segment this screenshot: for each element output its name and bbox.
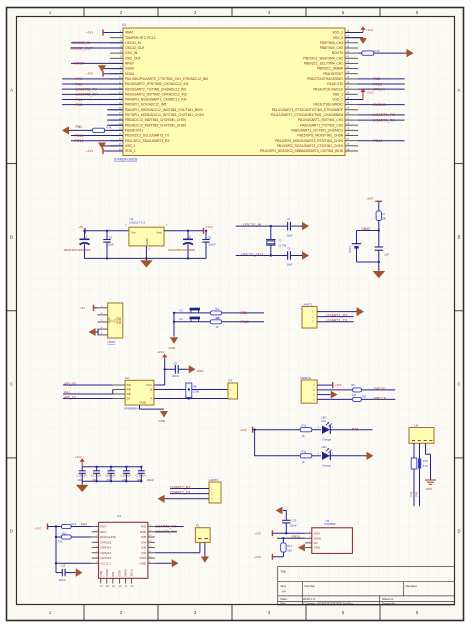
svg-text:VDDA: VDDA [125,72,135,76]
svg-text:Orange: Orange [322,463,331,467]
wire USART2_RX [170,486,209,490]
svg-text:C3: C3 [109,235,113,239]
svg-text:U2: U2 [125,376,129,380]
wire PA4 [62,98,123,102]
power +3V3 on VDDA [86,71,123,77]
svg-text:IO5: IO5 [141,535,146,539]
svg-text:USART3_RX: USART3_RX [156,525,177,529]
svg-text:VSS_2: VSS_2 [333,92,343,96]
wire USART1_RX [358,113,405,117]
resistor R6 10K on SWCLK [317,395,395,402]
svg-text:P3: P3 [229,379,233,383]
ground symbol battery [373,271,386,278]
svg-text:NC: NC [314,541,318,545]
U1 right pins with names and numbers [260,30,358,153]
svg-text:USART1_TX: USART1_TX [327,319,348,323]
capacitor C8 100nF with ground arrow [165,361,204,378]
svg-text:IO9: IO9 [111,571,115,576]
svg-text:PA4: PA4 [76,98,83,102]
svg-text:VBAT: VBAT [125,31,133,35]
svg-text:+3V3: +3V3 [86,149,93,153]
svg-text:JTCLK: JTCLK [373,87,385,91]
resistor R13 on EN [55,527,92,573]
svg-text:Date:: Date: [281,597,288,601]
wire U3 Vout to +3V3 [164,225,213,234]
svg-text:VCC: VCC [146,383,153,387]
svg-text:U1: U1 [122,23,126,27]
svg-text:100uF/25V/10%(0805): 100uF/25V/10%(0805) [168,248,195,252]
connector UART2 [209,478,222,503]
U6 bottom pin marks [412,440,432,442]
svg-text:DEBUG: DEBUG [301,376,312,380]
wire stub [107,124,123,126]
wire +3V3 to U2 VCC [154,359,166,385]
svg-text:PA0: PA0 [76,77,83,81]
svg-text:STM32F103C8: STM32F103C8 [114,158,137,162]
power +3V3 caps bus [75,455,85,467]
power +3V3 for LEDs [240,427,253,433]
svg-text:A: A [458,88,461,93]
power +3V3 on VDD_3 [345,26,373,32]
svg-text:Y2: Y2 [278,239,282,243]
svg-text:SWCLK: SWCLK [374,396,387,400]
U1 left pins with names and numbers [110,30,208,153]
svg-text:2019-7-2: 2019-7-2 [303,597,315,601]
svg-text:+3V3: +3V3 [254,555,261,559]
wire USART3_RX from U4 TXD [155,525,184,529]
op-amp U1 MCU STM32F103C8 body [123,28,345,156]
ground bus and symbol under U3 [85,246,207,268]
svg-text:C5: C5 [188,235,192,239]
svg-text:DS18B20: DS18B20 [325,522,337,526]
svg-text:SWDIO: SWDIO [374,387,386,391]
ground arrow U5 GND [298,544,305,552]
svg-text:GND: GND [169,346,175,350]
svg-text:DI: DI [127,397,130,401]
svg-text:VCC3.3: VCC3.3 [100,561,111,565]
svg-text:PA5/SPI1_SCK/ADC12_IN5: PA5/SPI1_SCK/ADC12_IN5 [125,103,166,107]
resistor R12 on RST [55,523,92,529]
power +5V input [78,225,85,234]
svg-text:C17/104: C17/104 [91,473,102,477]
svg-text:PA12/USART1_RTS/CANTX/TIM1_ETR: PA12/USART1_RTS/CANTX/TIM1_ETR/USBDP [272,108,344,112]
svg-text:RST: RST [100,525,106,529]
svg-text:SWDIO: SWDIO [373,103,386,107]
svg-text:PA5: PA5 [76,103,83,107]
crystal Y2 32.768 [266,226,287,255]
wire USART3_TX from U4 RXD [155,530,177,534]
svg-text:R12: R12 [72,523,77,526]
svg-text:PA11/USART1_CTS/CANRX/TIM1_CH4: PA11/USART1_CTS/CANRX/TIM1_CH4/USBDM [271,113,343,117]
svg-text:D: D [10,529,13,534]
svg-text:VDD_2: VDD_2 [332,98,343,102]
capacitor C4 20pF with ground arrow [287,247,309,267]
wire SWDIO [358,103,405,107]
ground for buttons [169,313,179,350]
svg-text:+3V3: +3V3 [240,428,247,432]
capacitor C15 100nF on U4 VCC [56,563,76,582]
bottom bus wire [82,480,141,482]
svg-text:PA1/USART2_RTS/TIM2_CH2/ADC12_: PA1/USART2_RTS/TIM2_CH2/ADC12_IN1 [125,82,189,86]
svg-text:GND: GND [118,316,122,324]
svg-text:485_TX: 485_TX [64,396,77,400]
sensor U5 DS18B20 body [312,528,353,554]
svg-text:B: B [150,388,152,392]
svg-text:MISO: MISO [105,568,109,576]
svg-text:VSS_1: VSS_1 [125,144,135,148]
module U4 ESP8266 body [99,522,148,578]
svg-text:VSSA: VSSA [125,67,135,71]
svg-text:OSC32_IN: OSC32_IN [72,41,91,45]
svg-text:PB11: PB11 [75,139,84,143]
svg-text:OSC_OUT: OSC_OUT [125,56,141,60]
svg-text:PB14/SPI2_MISO/USART3_RTS/TIM1: PB14/SPI2_MISO/USART3_RTS/TIM1_CH2N [275,139,343,143]
svg-text:C13: C13 [292,519,297,523]
ground arrow UART2 [158,495,210,503]
svg-text:PB10: PB10 [292,535,300,539]
svg-text:100nF: 100nF [107,242,115,246]
svg-text:20pF: 20pF [287,263,293,267]
wire +5V to U3 Vin [85,230,129,232]
svg-text:K1: K1 [180,308,184,312]
wire PB11 [71,139,123,143]
capacitor C3 100nF [103,230,114,259]
svg-text:PB8/TIM4_CH3: PB8/TIM4_CH3 [320,46,343,50]
svg-text:GND: GND [314,546,320,550]
svg-text:UART2: UART2 [209,478,219,482]
wire USART2_TX [62,87,123,91]
capacitor C20 100nF [136,466,147,483]
svg-text:VSS_3: VSS_3 [333,36,343,40]
svg-text:Orange: Orange [322,437,331,441]
wire PA15 [358,82,405,86]
wire PA1 [62,82,123,86]
svg-text:GPIO14: GPIO14 [100,546,111,550]
resistor R10 1K [300,424,321,438]
wire PB5 [358,77,405,81]
svg-text:USB1: USB1 [108,340,116,344]
wire USART1_TX [358,118,405,122]
capacitor C19 100nF [121,466,132,483]
svg-text:PA13/JTMS-SWDIO: PA13/JTMS-SWDIO [313,103,343,107]
svg-text:EN(CH-PD): EN(CH-PD) [100,535,116,539]
ground arrow VSSA [98,65,123,72]
power +5V on USB VCC [80,305,97,311]
svg-text:PA13: PA13 [241,320,249,324]
svg-text:PA6/SPI1_MISO/ADC12_IN6/TIM3_C: PA6/SPI1_MISO/ADC12_IN6/TIM3_CH1/TIM1_BK… [125,108,203,112]
svg-text:R16: R16 [423,460,428,463]
wire USART1_TX [317,319,354,323]
title block [278,567,455,605]
svg-text:P1: P1 [196,523,200,527]
svg-text:1K: 1K [216,325,219,329]
wire JTCLK [358,87,405,91]
wire U6 pin1 with resistor R15 [409,443,417,506]
svg-text:R10: R10 [302,424,307,428]
svg-text:PB4/JNTRST: PB4/JNTRST [323,72,343,76]
svg-text:PA8: PA8 [352,428,358,432]
svg-text:PB1/ADC12_IN9/TIM3_CH4/TIM1_CH: PB1/ADC12_IN9/TIM3_CH4/TIM1_CH3N [125,123,186,127]
svg-text:20pF: 20pF [287,234,293,238]
connector P1 [195,523,210,542]
svg-text:10K: 10K [287,549,292,553]
wire PA5 [62,103,123,107]
LED D1 Orange [318,416,335,442]
svg-text:PB5: PB5 [373,77,380,81]
wire OSC32_IN to crystal [236,223,288,227]
svg-text:PB3/JTDO/TRACESWO: PB3/JTDO/TRACESWO [307,77,343,81]
svg-text:TXD: TXD [140,525,147,529]
capacitor C5 100uF tantalum [168,230,195,259]
svg-text:DATA: DATA [314,536,321,540]
svg-text:BOOT0: BOOT0 [332,51,343,55]
svg-text:PA0-WKUP/USART2_CTS/TIM2_CH1_E: PA0-WKUP/USART2_CTS/TIM2_CH1_ETR/ADC12_I… [125,77,208,81]
ground arrow U4 cap [76,568,83,576]
ground arrow VSS_3 [345,38,367,44]
svg-text:U4: U4 [117,514,121,518]
power +3V3 to U5 VDD [254,530,305,536]
svg-text:SCLK: SCLK [130,569,134,577]
wire OSC32_IN [71,41,123,45]
svg-text:GND: GND [426,487,432,491]
svg-text:C4: C4 [287,247,291,251]
svg-text:R14: R14 [287,544,292,548]
svg-text:PA9/USART1_TX/TIM1_CH2: PA9/USART1_TX/TIM1_CH2 [300,123,343,127]
wire NRST [71,62,123,66]
wire LED1 to PA8 [331,428,373,432]
svg-text:PB10/I2C2_SCL/USART3_TX: PB10/I2C2_SCL/USART3_TX [125,134,170,138]
connector P3 RS485 [228,379,238,401]
svg-text:PA3: PA3 [414,491,418,496]
svg-text:PA4/SPI1_NSS/USART2_CK/ADC12_I: PA4/SPI1_NSS/USART2_CK/ADC12_IN4 [125,98,187,102]
ground arrow DEBUG pin2 [317,391,337,399]
svg-text:IO2: IO2 [141,551,146,555]
svg-text:C: C [10,382,13,387]
svg-text:Size: Size [281,584,287,588]
ground arrow P1 pin2 [201,542,209,562]
svg-text:LM1117-3.3: LM1117-3.3 [130,221,146,225]
svg-text:+3V3: +3V3 [254,531,261,535]
svg-text:10K: 10K [382,217,387,221]
svg-text:100nF: 100nF [290,524,298,528]
svg-text:R4: R4 [216,307,220,311]
svg-text:1uF: 1uF [384,252,389,256]
U5 pin GND [305,547,312,549]
svg-text:File:: File: [281,602,287,606]
capacitor C7 1uF [375,231,390,272]
svg-text:+3V3: +3V3 [157,350,164,354]
wire U6 pin3 to earth ground [425,443,436,491]
svg-text:UART1: UART1 [303,302,313,306]
svg-text:PA15: PA15 [373,82,382,86]
svg-text:R7: R7 [216,316,220,320]
svg-text:PA8/USART1_CK/TIM1_CH1/MCO: PA8/USART1_CK/TIM1_CH1/MCO [291,129,343,133]
svg-text:BAT1: BAT1 [348,246,352,253]
svg-text:100uF/25V/10%(0805): 100uF/25V/10%(0805) [64,248,91,252]
wire 485_RX [63,382,113,386]
svg-text:+3V3: +3V3 [366,28,373,32]
LED D2 Orange [318,445,335,467]
capacitor C6 100nF [202,230,216,259]
U5 pin NC [305,542,312,544]
svg-text:PB2: PB2 [241,311,248,315]
svg-text:RO: RO [127,383,132,387]
svg-text:PB9/TIM4_CH4: PB9/TIM4_CH4 [320,41,343,45]
resistor R1 4.7K on BOOT0 with ground arrow [358,49,414,57]
svg-text:+3V3: +3V3 [335,383,342,387]
transceiver U2 SP3485EN [125,380,154,405]
power +BAT [367,197,383,202]
svg-text:PB6/I2C1_SCL/TIM4_CH1: PB6/I2C1_SCL/TIM4_CH1 [304,62,343,66]
svg-text:OSC32_OUT: OSC32_OUT [125,46,145,50]
ground arrow U2 GND [140,405,169,423]
button K2 and resistor R7 row [173,316,264,329]
resistor R5 10K on SWDIO [317,383,395,397]
svg-text:+3V3: +3V3 [86,31,93,35]
svg-text:C20/104: C20/104 [136,473,147,477]
svg-text:100nF: 100nF [147,478,155,482]
svg-text:1K: 1K [302,434,305,438]
svg-text:IO0: IO0 [141,546,146,550]
svg-text:GND: GND [145,238,149,244]
svg-text:OSC_IN: OSC_IN [125,51,138,55]
svg-text:RE: RE [127,388,131,392]
capacitor C16 100nF [76,467,87,482]
svg-text:K2: K2 [180,317,184,321]
svg-text:PA15/JTDI: PA15/JTDI [327,82,343,86]
svg-text:TAMPER-RTC PC13: TAMPER-RTC PC13 [125,36,156,40]
node VBAT [362,227,380,232]
resistor R14 10K pull-up [254,537,292,560]
button K1 and resistor R4 row [173,307,264,320]
svg-text:PB15/SPI2_MOSI/TIM1_CH3N: PB15/SPI2_MOSI/TIM1_CH3N [297,134,343,138]
svg-text:R11: R11 [302,450,307,454]
svg-text:+BAT: +BAT [367,197,374,201]
svg-text:C16/104: C16/104 [76,473,87,477]
svg-text:GPIO12: GPIO12 [100,551,111,555]
svg-text:C18/104: C18/104 [105,473,116,477]
svg-text:PA2/USART2_TX/TIM2_CH3/ADC12_I: PA2/USART2_TX/TIM2_CH3/ADC12_IN2 [125,87,186,91]
svg-text:NRST: NRST [125,62,134,66]
svg-text:+3V3: +3V3 [35,527,42,531]
svg-text:4.7K: 4.7K [423,465,428,468]
svg-text:IO4: IO4 [141,540,146,544]
wire USART1_RX [317,314,354,318]
svg-text:PB2/BOOT1: PB2/BOOT1 [125,129,143,133]
svg-text:PB2: PB2 [76,125,83,129]
U5 pin DATA [305,537,312,539]
svg-text:C2: C2 [84,235,88,239]
svg-text:C1: C1 [287,217,291,221]
svg-text:VDD_3: VDD_3 [332,31,343,35]
resistor R3 10K on BOOT1 with ground arrow [62,125,123,135]
svg-text:VDD: VDD [314,531,320,535]
wire stub [107,109,123,111]
svg-text:GND: GND [139,401,147,405]
power +3V3 for U4 [35,524,56,531]
svg-text:PB12/SPI2_NSS/I2C2_SMBAI/USART: PB12/SPI2_NSS/I2C2_SMBAI/USART3_CK/TIM1_… [260,149,344,153]
power +3V3 on VDD_1 [86,148,123,154]
resistor R11 1K [255,450,322,464]
power +3V3 DEBUG pin4 [317,382,342,388]
svg-text:MOSI: MOSI [124,569,128,577]
svg-text:OSC32_IN: OSC32_IN [243,223,262,227]
U5 pin VDD [305,532,312,534]
U4 pins [92,525,155,588]
svg-text:PA2: PA2 [409,491,413,496]
svg-text:RXD: RXD [140,530,147,534]
svg-text:4.7K: 4.7K [106,126,112,130]
svg-text:C12: C12 [61,564,66,567]
wire U6 pin2 with resistor R16 [414,443,428,506]
svg-text:D: D [457,529,460,534]
U2 pins [113,383,154,405]
svg-text:GPIO13: GPIO13 [100,556,111,560]
top bus wire [82,466,141,468]
svg-text:USART2_RX: USART2_RX [76,93,99,97]
svg-text:A: A [10,88,13,93]
wire DATA to PB10 [277,535,305,539]
svg-text:R8: R8 [193,385,197,389]
svg-text:GPIO16: GPIO16 [100,540,111,544]
svg-text:PA4: PA4 [81,523,87,527]
svg-text:R2: R2 [382,212,386,216]
svg-text:PB11/I2C2_SDA/USART3_RX: PB11/I2C2_SDA/USART3_RX [125,139,170,143]
ground arrow U4 GND pin [155,559,179,567]
svg-text:1K: 1K [302,460,305,464]
svg-text:Drawn By:: Drawn By: [382,602,396,606]
svg-text:PB10: PB10 [75,134,84,138]
svg-text:+3V3: +3V3 [75,455,82,459]
wire OSC32_OUT [236,253,288,257]
power +3V3 for U2 [164,355,166,359]
power +3V3 on VDD_2 [345,89,374,100]
svg-text:120R: 120R [193,389,199,393]
svg-text:DE: DE [127,392,131,396]
svg-text:USART2_RX: USART2_RX [170,486,191,490]
svg-text:PA14/JTCK-SWCLK: PA14/JTCK-SWCLK [313,87,344,91]
wire stub [107,114,123,116]
wire RE DE tie [63,390,113,396]
svg-text:SP3485EN: SP3485EN [124,407,139,411]
svg-text:A4: A4 [282,590,286,594]
svg-text:LED: LED [321,445,326,449]
svg-text:PA3/USART2_RX/TIM2_CH4/ADC12_I: PA3/USART2_RX/TIM2_CH4/ADC12_IN3 [125,92,187,96]
capacitor C18 100nF [105,466,116,483]
svg-text:ADC: ADC [100,530,107,534]
capacitor C13 100nF with ground [276,507,298,535]
svg-text:Vin: Vin [131,231,136,235]
svg-text:R13: R13 [62,532,67,535]
svg-text:R6: R6 [363,395,367,399]
svg-text:Sheet of: Sheet of [382,597,393,601]
wire OSC32_OUT [70,46,123,50]
svg-text:PA7/SPI1_MOSI/ADC12_IN7/TIM3_C: PA7/SPI1_MOSI/ADC12_IN7/TIM3_CH2/TIM1_CH… [125,113,205,117]
svg-text:100nF: 100nF [172,374,180,378]
svg-text:C:\Users\..\STM32F103C8T6.SchD: C:\Users\..\STM32F103C8T6.SchDoc [303,602,354,606]
connector USB1 [108,303,123,338]
wire U4 IO2 to P1 [155,542,200,552]
svg-text:USART2_TX: USART2_TX [170,491,191,495]
svg-text:10K: 10K [352,393,357,397]
svg-text:PA1: PA1 [76,82,83,86]
svg-text:B: B [10,235,13,240]
svg-text:4.7K: 4.7K [374,49,380,53]
svg-text:PB7/I2C1_SDA/TIM4_CH2: PB7/I2C1_SDA/TIM4_CH2 [303,56,343,60]
wire LED2 to ground arrow [331,452,374,460]
svg-text:100nF: 100nF [58,579,66,582]
svg-text:+3V3: +3V3 [367,91,374,95]
